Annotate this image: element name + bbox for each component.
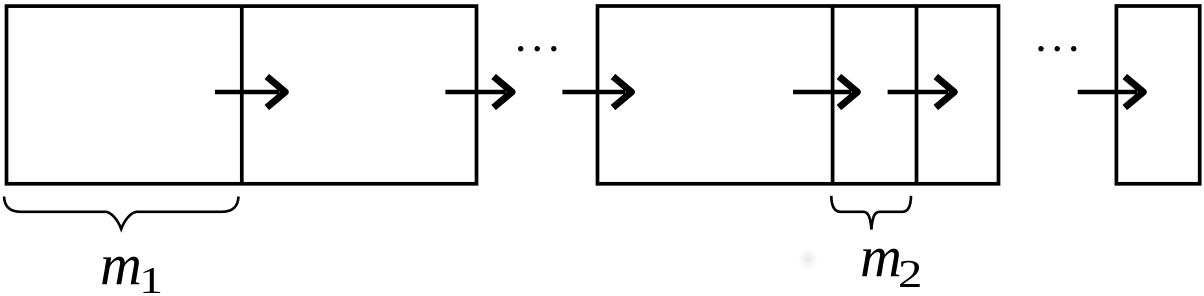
svg-text:1: 1 [139,260,163,296]
svg-text:m: m [860,224,902,289]
svg-text:m: m [100,232,142,296]
svg-text:2: 2 [898,252,922,295]
